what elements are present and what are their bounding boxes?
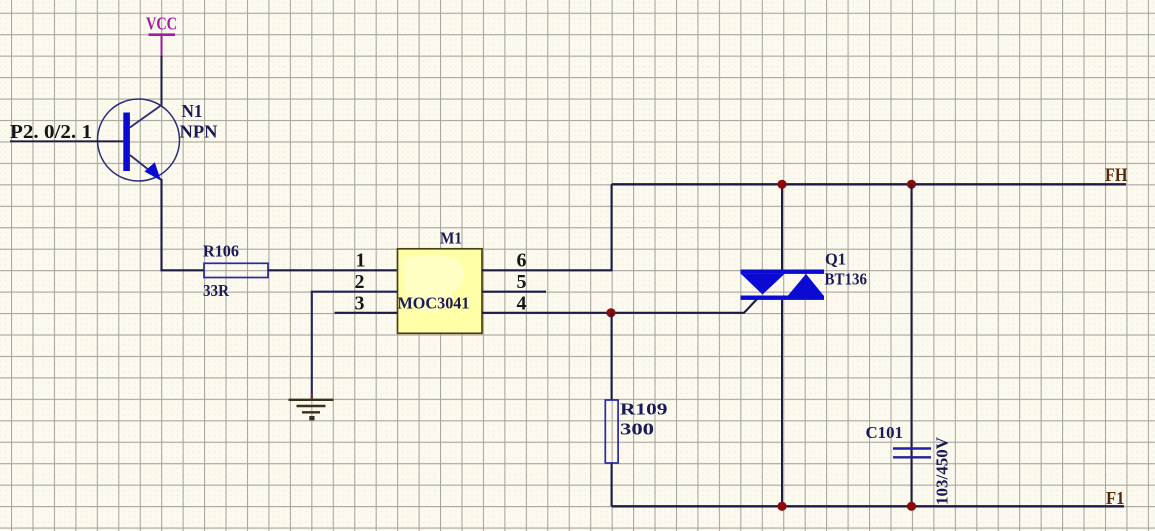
svg-text:F1: F1 <box>1106 488 1125 508</box>
junction node pin4 / R109 <box>606 308 615 317</box>
junction node F1 / C101 <box>907 502 916 511</box>
optocoupler M1 MOC3041 body <box>398 249 483 333</box>
junction node FH / MT2 <box>777 180 786 189</box>
wire M1 pin 3 stub <box>335 312 398 314</box>
resistor R106 <box>204 263 268 277</box>
svg-text:5: 5 <box>517 271 527 293</box>
svg-text:VCC: VCC <box>146 14 177 34</box>
svg-text:M1: M1 <box>440 229 462 248</box>
wire M1 pin 4 to triac gate <box>482 298 759 313</box>
svg-text:103/450V: 103/450V <box>933 436 952 505</box>
svg-text:6: 6 <box>517 250 527 272</box>
svg-text:FH: FH <box>1105 165 1128 186</box>
wire F1 rail <box>612 505 1124 507</box>
wire junction to R109 <box>611 313 613 400</box>
ground <box>289 393 334 420</box>
svg-text:MOC3041: MOC3041 <box>398 294 470 313</box>
svg-text:C101: C101 <box>866 423 904 442</box>
resistor R109 <box>605 400 618 463</box>
wire base (P2.0/2.1 to N1 base) <box>10 140 123 142</box>
svg-text:1: 1 <box>356 250 366 272</box>
svg-text:Q1: Q1 <box>825 250 846 269</box>
wire FH rail <box>612 183 1126 185</box>
svg-text:33R: 33R <box>203 281 230 300</box>
junction node FH / C101 <box>907 180 916 189</box>
junction node F1 / MT1 <box>777 502 786 511</box>
svg-text:R109: R109 <box>620 400 668 419</box>
svg-text:BT136: BT136 <box>825 270 868 289</box>
wire triac MT1 (Q1 down to F1 rail) <box>781 300 783 506</box>
wire R109 to F1 rail <box>611 463 613 506</box>
wire M1 pin 5 stub <box>482 291 546 293</box>
svg-text:300: 300 <box>620 420 654 439</box>
wire M1 pin 6 to FH rail <box>482 184 612 270</box>
wire M1 pin 2 to ground <box>312 292 398 399</box>
svg-text:P2. 0/2. 1: P2. 0/2. 1 <box>10 121 92 143</box>
svg-text:N1: N1 <box>182 101 203 121</box>
svg-text:2: 2 <box>355 271 365 293</box>
triac Q1 <box>741 270 825 300</box>
svg-text:4: 4 <box>517 293 527 315</box>
power port VCC <box>146 14 177 57</box>
wire R106 to M1 pin 1 <box>268 269 398 271</box>
svg-text:3: 3 <box>355 293 365 315</box>
svg-text:NPN: NPN <box>180 122 218 142</box>
wire C101 (FH rail down to F1 rail) <box>911 184 913 506</box>
wire emitter (N1 to R106) <box>162 179 205 270</box>
capacitor C101 plates <box>893 449 931 458</box>
svg-text:R106: R106 <box>203 242 239 261</box>
wire collector (VCC to N1) <box>161 56 163 105</box>
wire triac MT2 (FH rail down to Q1) <box>781 184 783 270</box>
transistor N1 <box>98 99 180 181</box>
